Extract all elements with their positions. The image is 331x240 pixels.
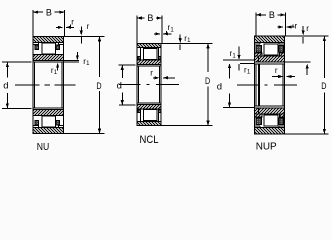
svg-text:D: D xyxy=(96,81,101,92)
svg-text:D: D xyxy=(321,81,326,92)
svg-text:d: d xyxy=(217,81,222,92)
svg-text:r: r xyxy=(71,18,74,27)
svg-text:1: 1 xyxy=(54,70,58,76)
svg-text:NUP: NUP xyxy=(256,140,277,152)
svg-text:r: r xyxy=(150,69,153,78)
svg-text:NU: NU xyxy=(37,141,50,153)
svg-text:r: r xyxy=(306,24,309,33)
svg-text:r: r xyxy=(275,66,278,75)
svg-text:B: B xyxy=(269,10,275,20)
svg-text:1: 1 xyxy=(170,27,174,33)
svg-text:1: 1 xyxy=(86,61,90,67)
svg-text:r: r xyxy=(87,22,90,31)
svg-text:B: B xyxy=(46,7,52,17)
svg-text:r: r xyxy=(294,22,297,31)
svg-text:d: d xyxy=(3,81,8,92)
svg-text:B: B xyxy=(147,13,153,23)
svg-text:d: d xyxy=(117,81,122,92)
svg-text:D: D xyxy=(205,76,210,87)
svg-text:NCL: NCL xyxy=(140,134,159,146)
svg-text:1: 1 xyxy=(232,53,236,59)
svg-text:1: 1 xyxy=(247,70,251,76)
